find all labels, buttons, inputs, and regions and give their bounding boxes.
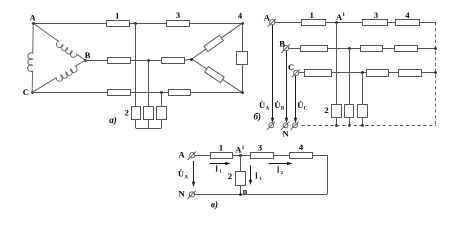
svg-text:A1: A1 bbox=[235, 144, 244, 154]
resistor 2a bbox=[332, 105, 342, 118]
resistor 4 bbox=[290, 153, 313, 159]
node bbox=[361, 124, 364, 127]
node C bbox=[31, 91, 34, 94]
resistor row C left bbox=[108, 90, 131, 96]
wire bbox=[185, 59, 192, 60]
voltage arrow UC bbox=[294, 76, 297, 123]
resistor row B right bbox=[162, 58, 185, 64]
svg-text:B: B bbox=[279, 39, 285, 49]
node 4 bbox=[241, 22, 244, 25]
wire bbox=[275, 22, 302, 24]
resistor 2b bbox=[144, 107, 154, 120]
node B bbox=[84, 59, 87, 62]
wire bbox=[387, 22, 395, 24]
node bbox=[348, 124, 351, 127]
wire bbox=[195, 155, 211, 157]
svg-text:4: 4 bbox=[238, 11, 243, 21]
node A1 bbox=[239, 154, 242, 157]
terminal B bbox=[281, 45, 289, 53]
resistor row B left bbox=[108, 58, 131, 64]
wire bbox=[336, 117, 338, 125]
wire bbox=[242, 23, 244, 92]
wire bbox=[161, 119, 163, 128]
node A bbox=[32, 22, 35, 25]
svg-text:4: 4 bbox=[405, 10, 410, 20]
svg-text:A1: A1 bbox=[336, 12, 345, 22]
wire bbox=[422, 72, 436, 74]
svg-text:İ3: İ3 bbox=[255, 171, 262, 181]
winding A-B bbox=[33, 23, 85, 60]
wire bbox=[417, 48, 436, 50]
resistor load right bbox=[237, 52, 248, 65]
resistor 4 bbox=[396, 20, 420, 26]
resistor 1 bbox=[107, 21, 130, 27]
resistor row C 1 bbox=[305, 70, 332, 77]
svg-text:2: 2 bbox=[228, 171, 232, 181]
wire neutral dashed right bbox=[435, 22, 437, 125]
node junction C bbox=[361, 71, 364, 74]
resistor load bottom bbox=[205, 67, 224, 83]
node junction B bbox=[348, 47, 351, 50]
svg-text:а): а) bbox=[109, 115, 117, 125]
voltage arrow UA bbox=[192, 161, 195, 187]
svg-text:B: B bbox=[85, 50, 91, 60]
wire bbox=[419, 22, 436, 24]
wire bbox=[130, 92, 168, 94]
node bbox=[434, 71, 437, 74]
wire bbox=[191, 92, 243, 94]
wire bbox=[325, 22, 363, 24]
resistor row B 3 bbox=[395, 46, 418, 52]
wire bbox=[135, 119, 137, 128]
terminal A bbox=[188, 152, 196, 160]
wire bbox=[349, 117, 351, 125]
current arrow I3 bbox=[249, 165, 252, 185]
resistor row C right bbox=[169, 90, 191, 96]
wire bbox=[289, 48, 301, 50]
wire bbox=[195, 194, 328, 196]
resistor 3 bbox=[363, 20, 388, 26]
node junction row C bbox=[160, 91, 163, 94]
current arrow I1 bbox=[209, 162, 230, 165]
wire bbox=[192, 23, 242, 59]
svg-text:İ1: İ1 bbox=[215, 163, 222, 173]
svg-text:3: 3 bbox=[176, 10, 180, 20]
svg-text:N: N bbox=[179, 189, 186, 199]
current arrow I2 bbox=[269, 162, 293, 165]
node bbox=[335, 124, 338, 127]
terminal N b bbox=[281, 122, 289, 130]
node load left bbox=[190, 58, 193, 61]
resistor 3 bbox=[167, 21, 190, 27]
wire bbox=[32, 92, 107, 94]
wire bbox=[331, 72, 367, 74]
node load bottom bbox=[241, 91, 244, 94]
wire bbox=[349, 48, 351, 104]
svg-text:U̇C: U̇C bbox=[297, 99, 308, 111]
resistor load top bbox=[204, 35, 223, 51]
wire bbox=[382, 48, 394, 50]
svg-text:İ2: İ2 bbox=[277, 165, 284, 175]
wire bbox=[190, 23, 242, 25]
wire bbox=[327, 155, 329, 194]
wire bbox=[192, 59, 242, 92]
winding A-C bbox=[28, 24, 33, 93]
svg-text:C: C bbox=[288, 62, 294, 72]
resistor row C 3 bbox=[399, 70, 422, 77]
svg-text:б): б) bbox=[254, 111, 262, 121]
wire bbox=[130, 23, 166, 25]
resistor 1 bbox=[302, 20, 326, 26]
terminal N bbox=[187, 191, 195, 199]
wire bbox=[299, 72, 305, 74]
wire bbox=[328, 48, 361, 50]
svg-text:в): в) bbox=[211, 200, 218, 210]
svg-text:U̇B: U̇B bbox=[274, 99, 285, 111]
voltage arrow UA bbox=[271, 25, 274, 123]
svg-text:U̇A: U̇A bbox=[259, 99, 270, 111]
svg-text:C: C bbox=[23, 87, 29, 97]
svg-text:3: 3 bbox=[374, 10, 378, 20]
terminal A bbox=[268, 19, 276, 27]
wire bbox=[33, 23, 106, 25]
wire bbox=[313, 155, 327, 157]
wire bbox=[85, 60, 107, 62]
resistor 2a bbox=[132, 107, 141, 120]
node bbox=[434, 47, 437, 50]
resistor row B 2 bbox=[361, 46, 383, 52]
resistor 2c bbox=[157, 107, 167, 120]
svg-text:1: 1 bbox=[310, 10, 314, 20]
wire bbox=[135, 23, 137, 106]
svg-text:n: n bbox=[243, 187, 248, 196]
wire neutral dashed bbox=[302, 125, 436, 127]
svg-text:1: 1 bbox=[219, 142, 223, 152]
wire bbox=[240, 185, 242, 194]
svg-text:4: 4 bbox=[299, 142, 304, 152]
resistor 2b bbox=[345, 105, 354, 118]
resistor 2 bbox=[236, 172, 246, 186]
wire bbox=[388, 72, 398, 74]
resistor row C 2 bbox=[367, 70, 389, 77]
terminal N a bbox=[267, 122, 275, 130]
svg-text:U̇A: U̇A bbox=[178, 168, 188, 180]
resistor row B 1 bbox=[301, 46, 328, 52]
svg-text:N: N bbox=[283, 128, 290, 138]
winding C-B bbox=[32, 60, 85, 92]
wire bbox=[233, 155, 251, 157]
resistor 1 bbox=[211, 153, 233, 159]
wire bbox=[148, 60, 150, 106]
svg-text:2: 2 bbox=[125, 108, 129, 118]
terminal C bbox=[292, 69, 300, 77]
wire bbox=[273, 155, 289, 157]
wire bbox=[240, 155, 242, 171]
node A1 bbox=[335, 21, 338, 24]
wire bbox=[362, 117, 364, 125]
wire bbox=[362, 73, 364, 104]
resistor 3 bbox=[251, 153, 274, 159]
resistor 2c bbox=[358, 105, 368, 118]
node n bbox=[239, 193, 242, 196]
wire bbox=[130, 60, 161, 62]
node junction row A bbox=[134, 22, 137, 25]
wire bbox=[161, 92, 163, 106]
svg-text:A: A bbox=[30, 13, 37, 23]
wire bbox=[336, 22, 338, 104]
node junction row B bbox=[147, 59, 150, 62]
wire bbox=[148, 119, 150, 128]
svg-text:3: 3 bbox=[258, 142, 262, 152]
svg-text:2: 2 bbox=[324, 105, 328, 115]
voltage arrow UB bbox=[285, 51, 288, 123]
wire star bus bbox=[136, 128, 161, 130]
terminal N c bbox=[290, 122, 298, 130]
svg-text:A: A bbox=[179, 150, 186, 160]
svg-text:1: 1 bbox=[115, 10, 119, 20]
